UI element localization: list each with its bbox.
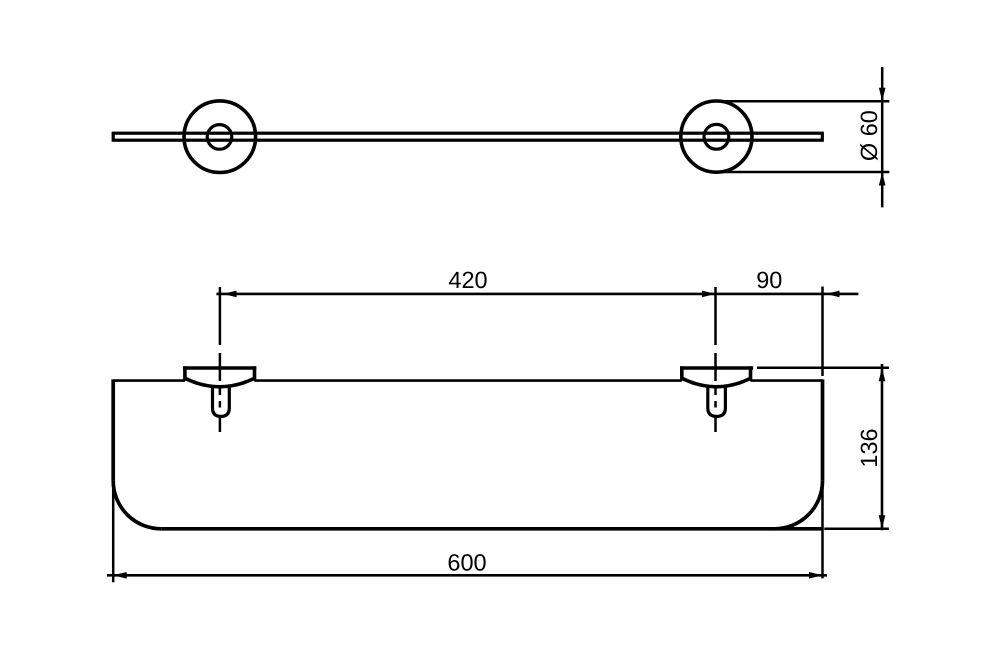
right wall mount outer circle (top view) xyxy=(681,101,752,172)
600 left extension line (below shelf left edge) xyxy=(112,481,115,583)
shelf front view: bottom-right corner arc xyxy=(775,481,823,529)
136 arrow down xyxy=(879,515,886,529)
dia 60 arrow up xyxy=(879,172,886,186)
svg-text:420: 420 xyxy=(448,267,487,293)
right bracket cap xyxy=(680,366,753,387)
600 right extension line (below shelf right edge) xyxy=(821,481,824,579)
90 right arrow xyxy=(826,291,840,298)
right bracket stem xyxy=(708,387,726,416)
dia 60 arrow down xyxy=(879,88,886,102)
136 bottom extension line xyxy=(824,528,889,531)
420/90 dimension line xyxy=(216,293,858,296)
svg-text:Ø 60: Ø 60 xyxy=(856,110,882,161)
600 dimension line xyxy=(107,574,827,577)
dia 60 bottom extension line xyxy=(716,171,889,174)
left wall mount inner circle (top view) xyxy=(207,125,232,150)
left wall mount outer circle (top view) xyxy=(184,101,256,173)
136 top extension line xyxy=(757,366,889,369)
left bracket center/extension line (dash-dot) xyxy=(219,287,222,432)
right shelf edge extension line for 90 dim xyxy=(821,287,824,377)
dia 60 dimension line xyxy=(881,67,884,207)
dia 60 top extension line xyxy=(716,100,889,103)
left bracket cap xyxy=(183,366,256,387)
svg-text:600: 600 xyxy=(447,549,486,575)
right bracket center/extension line (dash-dot) xyxy=(714,287,717,432)
136 arrow up xyxy=(879,368,886,382)
shelf front view: bottom edge xyxy=(161,527,822,531)
shelf front view: bottom-left corner arc xyxy=(113,481,161,529)
shelf front view: left edge xyxy=(111,379,115,480)
420 left arrow xyxy=(223,291,237,298)
top view: glass shelf plate (edge-on bar) xyxy=(113,133,822,140)
right wall mount inner circle (top view) xyxy=(704,124,729,149)
shelf front view: right edge xyxy=(821,379,825,480)
left bracket stem xyxy=(213,387,230,416)
svg-text:90: 90 xyxy=(756,267,782,293)
shelf front view: top edge segments xyxy=(113,379,185,382)
136 dimension line xyxy=(881,364,884,530)
420 right arrow xyxy=(702,291,716,298)
600 right arrow xyxy=(809,572,823,579)
600 left arrow xyxy=(113,572,127,579)
svg-text:136: 136 xyxy=(856,428,882,467)
